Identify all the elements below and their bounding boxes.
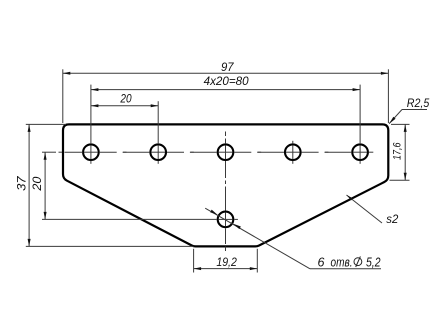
horizontal center line through holes (42, 151, 56, 153)
svg-text:97: 97 (221, 60, 235, 74)
vertical center line through middle holes (225, 132, 227, 137)
svg-text:отв.: отв. (331, 256, 353, 270)
svg-text:19,2: 19,2 (216, 255, 237, 269)
leader R2,5 (corner radius) (389, 110, 402, 124)
hole 4 (285, 144, 301, 160)
hole 3 (218, 144, 234, 160)
svg-text:20: 20 (30, 176, 44, 191)
svg-text:17,6: 17,6 (392, 142, 404, 160)
leader s2 (sheet thickness) (347, 195, 383, 223)
svg-text:6: 6 (318, 256, 325, 270)
svg-text:4x20=80: 4x20=80 (204, 76, 250, 88)
plate outline (63, 124, 388, 246)
svg-text:20: 20 (120, 93, 133, 105)
dimension 20 (hole row spacing) (42, 218, 217, 220)
svg-text:5,2: 5,2 (366, 256, 381, 270)
short vertical center ticks on holes 1,2,4,5 (90, 145, 92, 159)
dimension 19,2 (193, 249, 195, 273)
horizontal center tick on bottom hole (219, 218, 233, 220)
dimension 4x20=80 (90, 85, 92, 144)
hole 6 (bottom) (218, 212, 234, 228)
dimension 17,6 (391, 123, 410, 125)
dimension 97 (62, 69, 64, 123)
svg-text:s2: s2 (386, 212, 398, 226)
hole 1 (83, 144, 99, 160)
dimension 37 (overall height) (26, 123, 66, 125)
dimension 20 (hole pitch) (157, 101, 159, 143)
svg-text:37: 37 (14, 175, 28, 191)
diameter symbol (354, 258, 362, 266)
hole 2 (150, 144, 166, 160)
leader 6 otv. d5,2 (hole callout) (205, 208, 310, 269)
svg-text:R2,5: R2,5 (407, 98, 430, 110)
hole 5 (352, 144, 368, 160)
